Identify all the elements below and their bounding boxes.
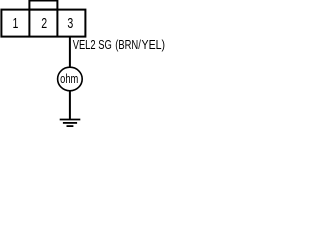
ohmmeter [58,67,83,91]
connector key tab [29,1,57,10]
svg-text:ohm: ohm [60,72,78,86]
pin 1 label [12,15,18,31]
svg-text:2: 2 [41,16,47,32]
connector cell divider 2/3 [56,10,58,37]
ohmmeter label "ohm" [60,72,78,86]
ground [60,120,81,127]
connector 3P body [1,10,85,37]
svg-text:VEL2 SG: VEL2 SG [73,39,112,53]
wire label VEL2 SG (BRN/YEL) [73,39,165,53]
svg-text:1: 1 [12,15,18,31]
pin 2 label [41,16,47,32]
svg-text:3: 3 [67,15,73,31]
svg-text:YEL): YEL) [142,39,166,52]
wire pin 3 to ohmmeter [69,37,71,68]
pin 3 label [67,15,73,31]
wire ohmmeter to ground [69,91,71,120]
connector cell divider 1/2 [28,10,30,37]
svg-text:(BRN/: (BRN/ [115,39,141,53]
